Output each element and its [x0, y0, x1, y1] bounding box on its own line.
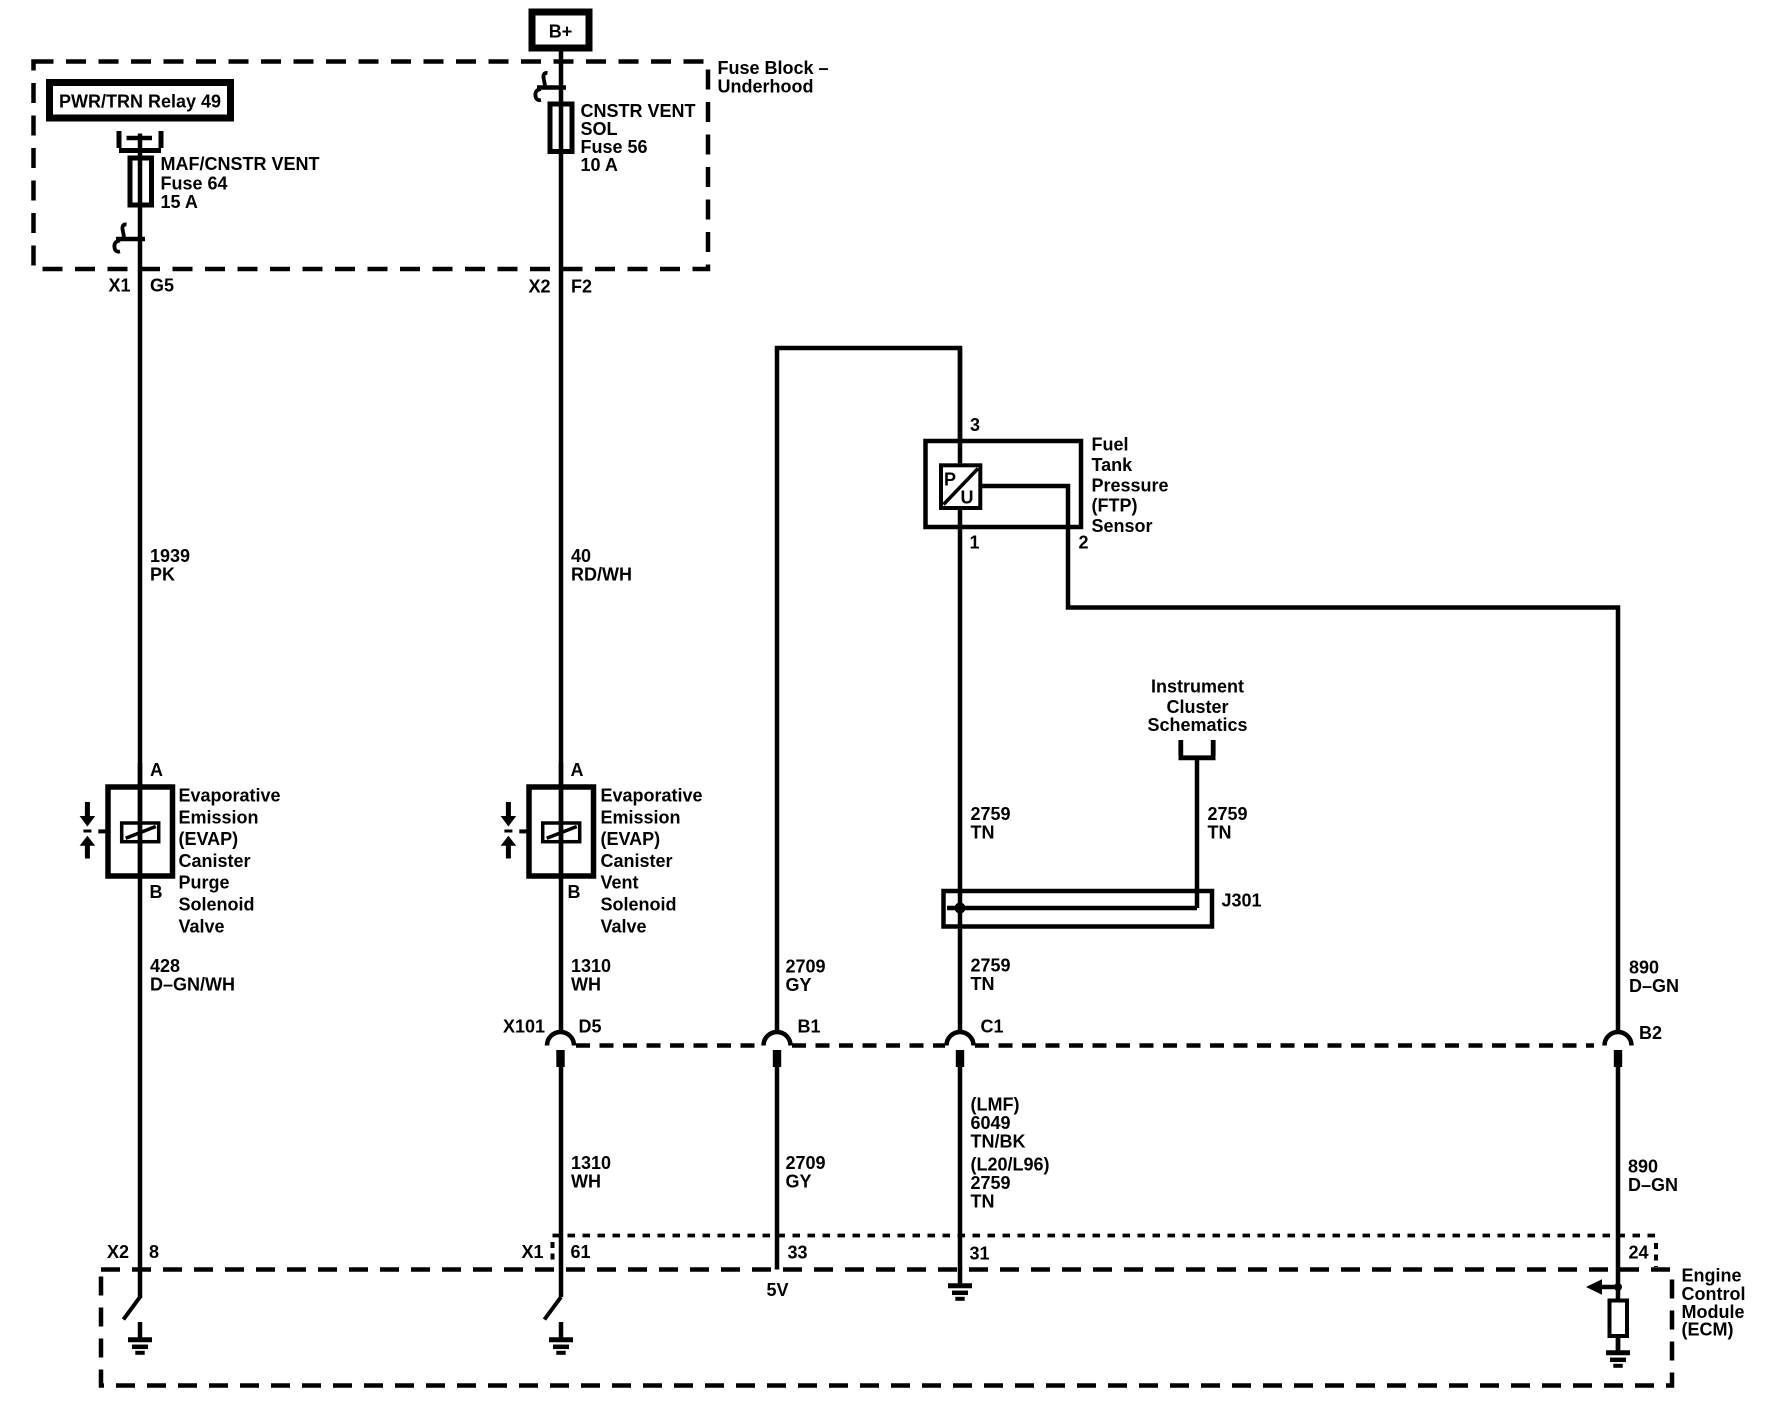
svg-text:X2: X2	[107, 1242, 129, 1262]
svg-text:B: B	[150, 882, 163, 902]
ECM dashed box	[101, 1270, 1672, 1386]
svg-text:SOL: SOL	[581, 119, 618, 139]
svg-text:Pressure: Pressure	[1092, 475, 1169, 495]
svg-text:D–GN: D–GN	[1629, 976, 1679, 996]
svg-text:428: 428	[150, 956, 180, 976]
svg-text:TN/BK: TN/BK	[971, 1132, 1026, 1152]
svg-text:(EVAP): (EVAP)	[601, 829, 661, 849]
junction dot J301	[955, 903, 966, 914]
svg-text:WH: WH	[571, 1172, 601, 1192]
ECM X1 right dotted separator	[1654, 1243, 1658, 1267]
svg-text:1310: 1310	[571, 956, 611, 976]
svg-text:2759: 2759	[971, 956, 1011, 976]
wire B1 to ECM 33	[775, 1067, 780, 1270]
svg-text:890: 890	[1629, 958, 1659, 978]
svg-text:61: 61	[571, 1242, 591, 1262]
svg-text:RD/WH: RD/WH	[571, 565, 632, 585]
instrument cluster off-page connector	[1179, 740, 1216, 758]
svg-text:Solenoid: Solenoid	[179, 895, 255, 915]
splice J301 box	[944, 891, 1213, 927]
svg-text:Valve: Valve	[179, 916, 225, 936]
ECM pin 61 switch	[544, 1297, 561, 1320]
svg-text:Fuse 64: Fuse 64	[161, 174, 228, 194]
wire D5 to ECM 61	[559, 1067, 564, 1297]
svg-text:X1: X1	[522, 1242, 544, 1262]
svg-text:2: 2	[1079, 533, 1089, 553]
svg-text:B2: B2	[1639, 1023, 1662, 1043]
svg-text:40: 40	[571, 546, 591, 566]
fuse block underhood dashed box	[34, 62, 709, 270]
svg-text:D5: D5	[579, 1017, 602, 1037]
svg-text:TN: TN	[971, 823, 995, 843]
wire 2709 GY vertical with top jog	[777, 348, 960, 1033]
inline terminal on wire 2	[535, 73, 566, 100]
FTP P/U transducer box	[941, 465, 980, 508]
X101 inline connector dashed line	[576, 1043, 1594, 1048]
svg-text:890: 890	[1628, 1157, 1658, 1177]
wire FTP pin1 vertical 2759 TN	[958, 348, 963, 1033]
B+ terminal	[532, 12, 589, 48]
svg-text:8: 8	[149, 1242, 159, 1262]
ground under resistor	[1606, 1335, 1630, 1366]
fuse F56 CNSTR VENT SOL 10A	[550, 104, 572, 152]
svg-text:Sensor: Sensor	[1092, 516, 1153, 536]
svg-text:B1: B1	[798, 1017, 821, 1037]
svg-text:GY: GY	[786, 975, 812, 995]
svg-text:1939: 1939	[150, 546, 190, 566]
ECM X1 connector dotted line	[553, 1234, 1657, 1238]
svg-text:Canister: Canister	[601, 851, 673, 871]
svg-text:GY: GY	[786, 1172, 812, 1192]
wire C1 to ECM 31	[958, 1067, 963, 1270]
svg-text:TN: TN	[1208, 823, 1232, 843]
svg-text:(EVAP): (EVAP)	[179, 829, 239, 849]
svg-text:U: U	[961, 488, 974, 508]
X101 pin B1	[764, 1032, 791, 1067]
svg-text:PK: PK	[150, 565, 175, 585]
svg-text:Tank: Tank	[1092, 455, 1134, 475]
svg-text:PWR/TRN Relay 49: PWR/TRN Relay 49	[59, 92, 221, 112]
svg-text:Evaporative: Evaporative	[179, 786, 281, 806]
svg-text:D–GN: D–GN	[1628, 1175, 1678, 1195]
svg-text:2759: 2759	[971, 804, 1011, 824]
X101 pin C1	[947, 1032, 974, 1067]
svg-text:31: 31	[970, 1244, 990, 1264]
wire 1939 PK vertical	[138, 134, 143, 1299]
svg-text:F2: F2	[571, 277, 592, 297]
svg-text:MAF/CNSTR VENT: MAF/CNSTR VENT	[161, 154, 320, 174]
EVAP canister vent solenoid valve	[501, 763, 594, 876]
ground under pin 8	[128, 1322, 152, 1353]
svg-text:(ECM): (ECM)	[1682, 1320, 1734, 1340]
X101 pin B2	[1605, 1032, 1632, 1067]
svg-text:(FTP): (FTP)	[1092, 496, 1138, 516]
svg-text:Valve: Valve	[601, 916, 647, 936]
svg-text:P: P	[944, 470, 956, 490]
ECM pin 8 wire and switch	[123, 1297, 140, 1320]
relay PWR/TRN Relay 49	[50, 83, 231, 119]
EVAP canister purge solenoid valve	[80, 763, 173, 876]
svg-text:X1: X1	[109, 276, 131, 296]
svg-text:Solenoid: Solenoid	[601, 895, 677, 915]
svg-text:5V: 5V	[767, 1280, 789, 1300]
relay output terminal	[119, 131, 161, 151]
svg-text:B: B	[568, 882, 581, 902]
svg-text:Emission: Emission	[179, 807, 259, 827]
svg-text:Underhood: Underhood	[718, 77, 814, 97]
wire resistor to ground	[1616, 1336, 1621, 1351]
svg-text:Emission: Emission	[601, 807, 681, 827]
svg-text:1310: 1310	[571, 1153, 611, 1173]
svg-text:1: 1	[970, 533, 980, 553]
svg-text:B+: B+	[549, 22, 573, 42]
ECM pin 24 arrow	[1600, 1285, 1618, 1290]
svg-text:G5: G5	[150, 276, 174, 296]
svg-text:A: A	[150, 760, 163, 780]
svg-text:X101: X101	[503, 1017, 545, 1037]
ground under pin 31	[948, 1268, 972, 1299]
svg-text:Schematics: Schematics	[1147, 715, 1247, 735]
svg-text:3: 3	[970, 415, 980, 435]
svg-text:D–GN/WH: D–GN/WH	[150, 974, 235, 994]
wire cluster to J301 2759 TN	[1195, 758, 1200, 908]
X101 pin D5	[547, 1032, 574, 1067]
ECM X1 left dotted separator	[551, 1242, 555, 1264]
svg-text:2759: 2759	[1208, 804, 1248, 824]
ground under pin 61	[549, 1322, 573, 1353]
svg-text:Engine: Engine	[1682, 1266, 1742, 1286]
svg-text:A: A	[571, 760, 584, 780]
fuel tank pressure sensor box	[926, 441, 1082, 527]
svg-text:2709: 2709	[786, 1153, 826, 1173]
svg-text:TN: TN	[971, 1192, 995, 1212]
svg-text:33: 33	[788, 1243, 808, 1263]
ECM internal resistor	[1610, 1301, 1628, 1337]
svg-text:(LMF): (LMF)	[971, 1095, 1020, 1115]
svg-text:J301: J301	[1222, 891, 1262, 911]
svg-text:(L20/L96): (L20/L96)	[971, 1155, 1050, 1175]
inline terminal on wire 1	[114, 224, 145, 251]
svg-text:2709: 2709	[786, 957, 826, 977]
svg-text:Fuse 56: Fuse 56	[581, 137, 648, 157]
svg-text:10 A: 10 A	[581, 155, 618, 175]
svg-text:15 A: 15 A	[161, 192, 198, 212]
svg-text:Evaporative: Evaporative	[601, 786, 703, 806]
wire B2 to ECM 24	[1616, 1067, 1621, 1301]
svg-text:2759: 2759	[971, 1173, 1011, 1193]
svg-text:Cluster: Cluster	[1166, 697, 1228, 717]
svg-text:6049: 6049	[971, 1113, 1011, 1133]
J301 inner bus wire	[947, 906, 1197, 911]
svg-text:Fuse Block –: Fuse Block –	[718, 58, 829, 78]
svg-text:X2: X2	[529, 277, 551, 297]
svg-text:C1: C1	[981, 1017, 1004, 1037]
svg-text:24: 24	[1629, 1243, 1649, 1263]
svg-text:Instrument: Instrument	[1151, 677, 1244, 697]
svg-text:Fuel: Fuel	[1092, 435, 1129, 455]
svg-text:Control: Control	[1682, 1284, 1746, 1304]
svg-text:CNSTR VENT: CNSTR VENT	[581, 101, 696, 121]
wire 40 RD/WH vertical	[559, 48, 564, 1033]
fuse F64 MAF/CNSTR VENT 15A	[130, 158, 152, 205]
wire FTP pin2 to B2	[980, 486, 1618, 1033]
svg-text:WH: WH	[571, 974, 601, 994]
svg-text:Canister: Canister	[179, 851, 251, 871]
svg-text:Vent: Vent	[601, 873, 639, 893]
svg-text:Purge: Purge	[179, 873, 230, 893]
svg-text:TN: TN	[971, 974, 995, 994]
